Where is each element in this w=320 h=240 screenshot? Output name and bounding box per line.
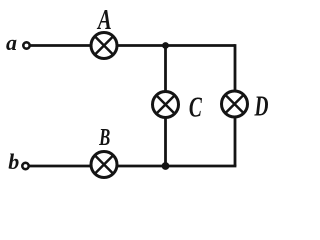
wire: top rail from terminal a to top-right corner bbox=[31, 44, 236, 47]
terminal a bbox=[23, 42, 29, 48]
lamp A label bbox=[96, 5, 112, 36]
lamp A bbox=[91, 33, 117, 59]
wire: lamp C branch vertical (top junction to bottom junction) bbox=[164, 46, 167, 167]
svg-text:A: A bbox=[96, 5, 112, 36]
svg-text:B: B bbox=[98, 125, 110, 151]
lamp D bbox=[222, 91, 248, 117]
junction: bottom node (B to C/D) bbox=[162, 162, 170, 170]
svg-text:a: a bbox=[6, 30, 17, 55]
svg-text:b: b bbox=[8, 149, 19, 174]
lamp B bbox=[91, 152, 117, 178]
lamp C bbox=[153, 92, 179, 118]
wire: right branch vertical (top corner down to bottom rail, through lamp D) bbox=[234, 44, 237, 166]
lamp D label bbox=[254, 92, 269, 122]
junction: top node (A to C/D) bbox=[162, 42, 169, 49]
lamp C label bbox=[189, 92, 202, 124]
svg-text:C: C bbox=[189, 92, 202, 124]
svg-text:D: D bbox=[254, 92, 269, 122]
terminal b bbox=[22, 163, 28, 169]
wire: bottom rail from terminal b to bottom-right corner bbox=[30, 165, 237, 168]
lamp B label bbox=[98, 125, 110, 151]
